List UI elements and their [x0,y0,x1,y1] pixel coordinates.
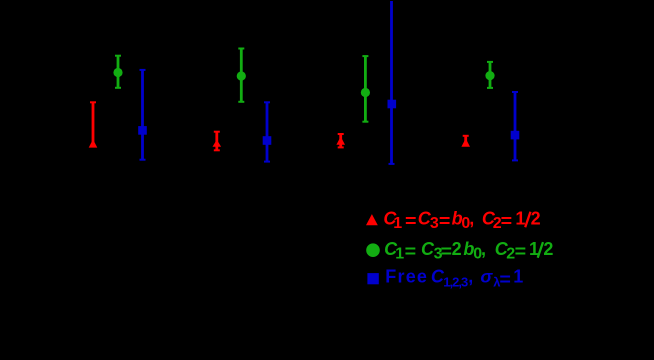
svg-text:2: 2 [531,208,541,228]
svg-text:1,2,3: 1,2,3 [443,275,468,290]
svg-text:,: , [468,267,473,287]
svg-text:=: = [441,242,453,262]
svg-text:,: , [481,239,486,259]
svg-text:1: 1 [395,245,404,262]
svg-text:2: 2 [452,239,462,259]
svg-text:3: 3 [430,215,439,232]
svg-text:Free: Free [385,267,428,287]
svg-text:=: = [439,211,451,231]
svg-text:1: 1 [513,267,523,287]
svg-text:=: = [405,211,417,231]
svg-text:σ: σ [480,267,493,287]
svg-text:=: = [499,269,511,289]
svg-text:2: 2 [543,239,553,259]
svg-text:1: 1 [393,215,402,232]
svg-text:=: = [405,242,417,262]
svg-text:=: = [501,211,512,231]
svg-text:,: , [469,208,474,228]
svg-text:=: = [515,242,527,262]
svg-text:1: 1 [515,208,525,228]
